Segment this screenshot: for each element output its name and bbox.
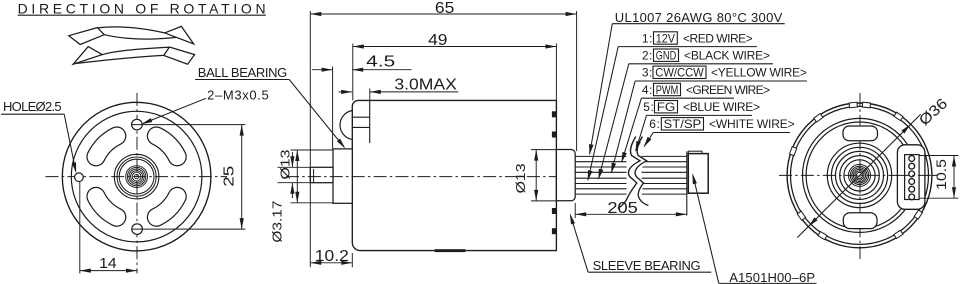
front view centerline horizontal	[46, 176, 228, 178]
front view centerline vertical	[136, 93, 138, 274]
M3 screw hole bottom	[132, 224, 143, 235]
leader to ball bearing boss	[289, 80, 344, 148]
rear rim circles	[803, 118, 917, 232]
rear view centerline horizontal	[779, 174, 938, 176]
dimension 10.5	[919, 155, 958, 157]
motor front outer circle	[62, 102, 211, 251]
svg-text:<RED WIRE>: <RED WIRE>	[683, 31, 753, 45]
leader from wire label 6	[644, 133, 653, 147]
side view centerline	[286, 176, 561, 178]
svg-text:25: 25	[220, 166, 237, 187]
svg-text:FG: FG	[657, 100, 676, 114]
svg-text:65: 65	[435, 0, 454, 17]
svg-text:<BLACK WIRE>: <BLACK WIRE>	[684, 49, 770, 63]
rear crimp tabs on rim	[790, 147, 797, 156]
svg-text:ST/SP: ST/SP	[664, 117, 702, 131]
svg-text:3.0MAX: 3.0MAX	[394, 76, 457, 93]
svg-text:CW/CCW: CW/CCW	[655, 66, 704, 80]
wire break symbol	[618, 137, 649, 209]
svg-text:5 :: 5 :	[643, 100, 654, 114]
rear outer band inner circle	[791, 106, 929, 244]
svg-text:10.2: 10.2	[315, 248, 349, 265]
dimension 4.5	[332, 67, 334, 149]
shaft	[310, 167, 333, 182]
front bearing boss	[333, 149, 352, 203]
svg-text:2 :: 2 :	[642, 49, 653, 63]
svg-text:Ø13: Ø13	[513, 163, 528, 193]
svg-text:6 :: 6 :	[649, 117, 660, 131]
dimension 3.0MAX	[369, 89, 371, 101]
crimp tab lines	[352, 116, 369, 118]
leader from UL1007 label	[590, 24, 613, 155]
svg-text:<YELLOW WIRE>: <YELLOW WIRE>	[711, 66, 807, 80]
svg-text:2–M3x0.5: 2–M3x0.5	[207, 88, 269, 103]
dimension 10.2	[351, 253, 353, 267]
rear outer circle	[787, 103, 932, 248]
label 3 landing line	[635, 80, 807, 82]
dimension 205	[574, 203, 576, 218]
leader to connector	[693, 176, 719, 284]
svg-text:3 :: 3 :	[642, 66, 653, 80]
hole 2.5 left	[75, 173, 84, 182]
front shaft circles	[126, 166, 148, 188]
svg-text:A1501H00–6P: A1501H00–6P	[729, 270, 815, 284]
svg-text:1 :: 1 :	[642, 31, 653, 45]
rotation arrow top band	[69, 28, 105, 45]
leader from wire label 4	[622, 98, 642, 162]
svg-text:Ø3.17: Ø3.17	[270, 201, 285, 243]
label 4 landing line	[641, 97, 734, 99]
svg-text:HOLEØ2.5: HOLEØ2.5	[3, 99, 62, 114]
rear connector pins	[909, 156, 915, 162]
svg-text:4 :: 4 :	[642, 83, 653, 97]
svg-text:SLEEVE BEARING: SLEEVE BEARING	[593, 258, 701, 273]
front vent slot upper-right	[147, 127, 186, 166]
svg-text:<GREEN WIRE>: <GREEN WIRE>	[686, 83, 770, 97]
leader to hole 2.5	[64, 114, 76, 171]
label 6 landing line	[653, 132, 790, 134]
rear centerline over connector	[896, 174, 932, 176]
end cap crimp bulge	[340, 111, 352, 140]
svg-text:12V: 12V	[656, 31, 675, 45]
dimension dia 13 front	[291, 149, 334, 151]
svg-text:4.5: 4.5	[366, 54, 395, 71]
rear bearing boss	[556, 150, 575, 201]
svg-text:49: 49	[428, 32, 447, 49]
rear center rings	[827, 143, 891, 207]
leader to M3 hole	[143, 98, 206, 123]
svg-text:BALL BEARING: BALL BEARING	[198, 65, 287, 80]
rear cover crimp tabs	[552, 111, 557, 117]
front vent slot lower-left	[87, 187, 126, 226]
svg-text:<WHITE WIRE>: <WHITE WIRE>	[709, 117, 795, 131]
rear hub tight rings	[849, 164, 871, 186]
connector side view	[686, 151, 688, 215]
front vent slot lower-right	[147, 187, 186, 226]
rear vent slot top	[843, 126, 878, 141]
svg-text:DIRECTION OF ROTATION: DIRECTION OF ROTATION	[18, 0, 266, 16]
svg-text:Ø13: Ø13	[278, 150, 293, 180]
dimension 49	[352, 44, 354, 101]
leader from wire label 5	[636, 115, 647, 151]
dia 36 leader line	[797, 114, 920, 237]
rear connector	[897, 145, 925, 210]
svg-text:UL1007 26AWG 80°C 300V: UL1007 26AWG 80°C 300V	[615, 10, 783, 25]
M3 screw hole top	[132, 119, 143, 130]
leader to sleeve bearing	[571, 216, 589, 273]
dimension 65	[309, 11, 311, 267]
rear vent slot bottom	[843, 213, 877, 229]
leader from wire label 2	[599, 64, 629, 179]
front hub circles	[114, 154, 159, 199]
svg-text:205: 205	[607, 200, 638, 217]
dimension 25	[132, 124, 246, 126]
svg-text:10.5: 10.5	[933, 159, 949, 190]
bottom seam mark	[435, 249, 466, 252]
motor front inner rim circle	[71, 111, 202, 242]
svg-text:GND: GND	[656, 49, 677, 63]
label 2 landing line	[629, 63, 773, 65]
dimension dia 3.17	[278, 166, 311, 168]
leader from wire label 3	[611, 81, 635, 173]
shaft end chamfer	[313, 169, 315, 183]
svg-text:<BLUE WIRE>: <BLUE WIRE>	[683, 100, 760, 114]
leader from wire label 1	[588, 47, 618, 181]
dimension 14	[79, 182, 81, 274]
motor body side view	[352, 100, 556, 250]
dimension dia 13 rear	[531, 149, 556, 151]
label 5 landing line	[647, 114, 753, 116]
svg-text:PWM: PWM	[656, 83, 679, 97]
label 1 landing line	[618, 46, 757, 48]
svg-text:14: 14	[99, 255, 117, 272]
rotation arrow bottom band	[73, 47, 102, 65]
rear view centerline vertical	[859, 93, 861, 259]
front vent slot upper-left	[87, 127, 126, 166]
wire bundle	[575, 155, 626, 157]
